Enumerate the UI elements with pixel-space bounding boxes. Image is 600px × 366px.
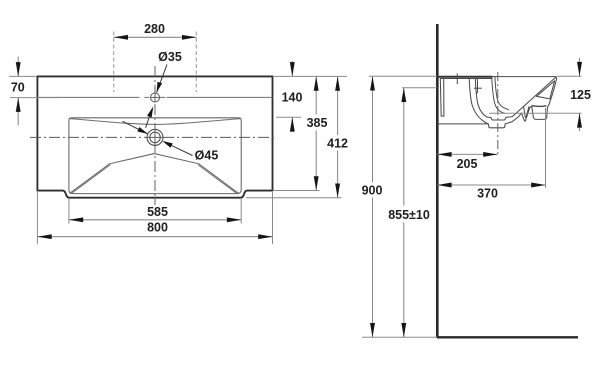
rear mounting flange bbox=[440, 78, 444, 116]
svg-text:370: 370 bbox=[477, 186, 498, 200]
svg-text:412: 412 bbox=[327, 136, 348, 150]
faucet center cross bbox=[151, 96, 160, 98]
svg-text:900: 900 bbox=[362, 184, 383, 198]
dimension 385 bbox=[274, 76, 347, 190]
centerline vertical bbox=[154, 66, 156, 205]
svg-text:Ø35: Ø35 bbox=[158, 50, 182, 64]
svg-text:585: 585 bbox=[147, 205, 168, 219]
svg-text:Ø45: Ø45 bbox=[195, 149, 219, 163]
inner rim outline bbox=[69, 118, 241, 194]
svg-text:855±10: 855±10 bbox=[388, 208, 430, 222]
dimension 70 bbox=[9, 57, 58, 126]
floor extension line bbox=[362, 336, 437, 338]
bowl corner double line right bbox=[198, 165, 237, 194]
svg-text:800: 800 bbox=[147, 220, 168, 234]
bowl rear wall outer + drain + apron outer bbox=[469, 77, 556, 128]
faucet deck line bbox=[37, 96, 139, 98]
dimension 370 bbox=[437, 108, 545, 200]
bowl rear wall inner + bottom + diagonal to nose bbox=[475, 77, 556, 120]
faucet hole circle bbox=[151, 93, 160, 102]
svg-text:140: 140 bbox=[282, 90, 303, 104]
faucet hole centerline tick bbox=[456, 73, 458, 84]
overflow channel outer bbox=[492, 77, 505, 114]
dimension 280 bbox=[114, 22, 197, 92]
dimension Ø35 leader bbox=[146, 50, 182, 128]
dimension 900 bbox=[362, 76, 437, 337]
basin underside flat line bbox=[438, 123, 489, 125]
wall line bbox=[436, 24, 439, 337]
floor line bbox=[437, 336, 578, 338]
svg-text:125: 125 bbox=[570, 88, 591, 102]
overflow slot bbox=[476, 78, 477, 93]
dimension 125 bbox=[489, 58, 591, 131]
dimension 140 bbox=[276, 61, 302, 132]
dimension 855±10 bbox=[388, 88, 437, 338]
dimension 205 bbox=[437, 152, 497, 171]
drain center cross bbox=[146, 136, 163, 138]
overflow cross tick bbox=[474, 87, 482, 89]
svg-text:205: 205 bbox=[457, 157, 478, 171]
fascia underside edge bbox=[532, 105, 547, 108]
svg-text:70: 70 bbox=[11, 81, 25, 95]
centerline horizontal bbox=[30, 136, 277, 138]
drain outer circle bbox=[147, 129, 163, 145]
dimension Ø45 leader bbox=[123, 121, 219, 162]
dimension 585 bbox=[69, 199, 241, 224]
svg-text:280: 280 bbox=[144, 22, 165, 36]
drain centerline bbox=[497, 72, 499, 157]
basin outer outline bbox=[37, 76, 272, 197]
dimension 412 bbox=[246, 76, 348, 197]
bowl corner double line left bbox=[71, 165, 110, 194]
rim ledge sag line bbox=[69, 119, 241, 125]
deck top line bbox=[438, 76, 493, 78]
dimension 800 bbox=[37, 192, 272, 244]
overflow channel inner bbox=[495, 77, 509, 110]
deck underside line bbox=[441, 78, 492, 80]
fascia triangle hollow bbox=[537, 81, 555, 99]
svg-text:385: 385 bbox=[307, 116, 328, 130]
drain inner circle bbox=[150, 132, 161, 143]
hanging V hollow slit bbox=[524, 106, 529, 117]
bowl slope mountain lines bbox=[70, 154, 239, 194]
